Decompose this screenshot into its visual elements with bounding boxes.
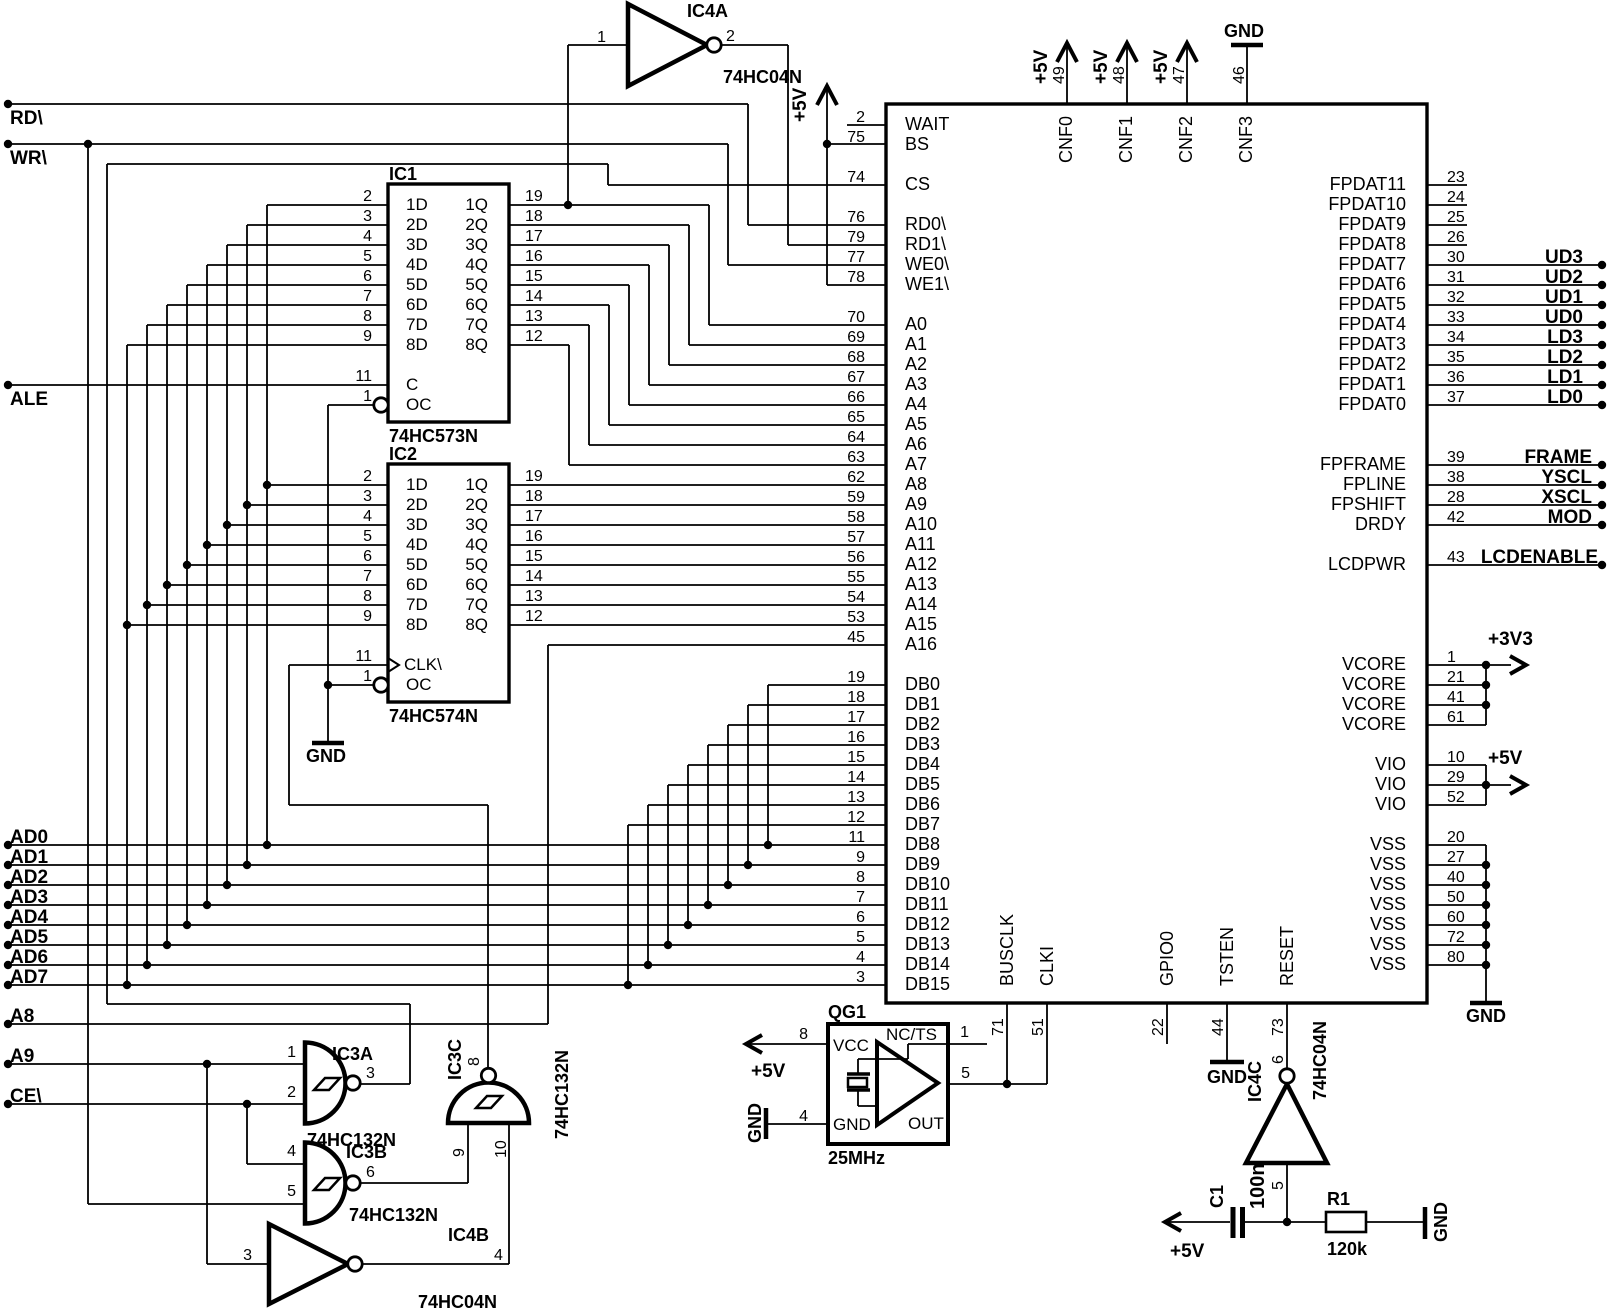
svg-text:16: 16 — [525, 248, 543, 265]
svg-text:A11: A11 — [905, 534, 936, 554]
svg-text:42: 42 — [1447, 509, 1465, 526]
svg-text:UD3: UD3 — [1545, 247, 1583, 268]
svg-text:1: 1 — [287, 1044, 296, 1061]
svg-text:13: 13 — [525, 308, 543, 325]
power +5V arrow on QG1 VCC pin 8 — [746, 1026, 828, 1082]
svg-text:A8: A8 — [905, 474, 927, 494]
net A8 wire — [4, 645, 886, 1028]
net RESET wire from chip to IC4C output — [1286, 1003, 1288, 1069]
net RD\ wire — [4, 100, 886, 225]
net UD1 wire — [1427, 287, 1606, 309]
svg-text:7Q: 7Q — [465, 315, 488, 334]
svg-text:74HC132N: 74HC132N — [349, 1205, 438, 1225]
svg-text:2: 2 — [856, 109, 865, 126]
svg-text:DB2: DB2 — [905, 714, 940, 734]
svg-text:VSS: VSS — [1370, 914, 1406, 934]
svg-text:5: 5 — [1270, 1181, 1287, 1190]
svg-text:DB13: DB13 — [905, 934, 950, 954]
svg-text:VIO: VIO — [1375, 754, 1406, 774]
ground GND at reset RC — [1425, 1202, 1451, 1242]
svg-text:30: 30 — [1447, 249, 1465, 266]
svg-text:GND: GND — [1207, 1067, 1247, 1087]
svg-text:72: 72 — [1447, 929, 1465, 946]
svg-text:5: 5 — [287, 1183, 296, 1200]
svg-text:73: 73 — [1270, 1018, 1287, 1036]
svg-text:32: 32 — [1447, 289, 1465, 306]
svg-text:11: 11 — [848, 829, 865, 846]
svg-text:67: 67 — [847, 369, 865, 386]
net UD3 wire — [1427, 247, 1606, 269]
svg-text:7: 7 — [363, 568, 372, 585]
svg-text:120k: 120k — [1327, 1239, 1368, 1259]
svg-text:74HC04N: 74HC04N — [1310, 1021, 1330, 1100]
power +3V3 on VCORE pins — [1427, 629, 1533, 725]
svg-text:7D: 7D — [406, 315, 428, 334]
svg-text:8: 8 — [799, 1026, 808, 1043]
IC1 74HC573N latch body — [388, 164, 509, 446]
svg-text:8: 8 — [363, 308, 372, 325]
svg-text:DB14: DB14 — [905, 954, 950, 974]
svg-text:27: 27 — [1447, 849, 1465, 866]
svg-text:74HC04N: 74HC04N — [723, 67, 802, 87]
svg-text:5D: 5D — [406, 555, 428, 574]
svg-text:A12: A12 — [905, 554, 937, 574]
svg-text:C: C — [406, 375, 418, 394]
svg-text:60: 60 — [1447, 909, 1465, 926]
svg-text:24: 24 — [1447, 189, 1465, 206]
svg-text:LCDPWR: LCDPWR — [1328, 554, 1406, 574]
svg-text:A10: A10 — [905, 514, 937, 534]
svg-text:3D: 3D — [406, 515, 428, 534]
net latched A9 wire (IC2 2Q to chip A9) — [509, 504, 886, 506]
svg-text:LD1: LD1 — [1547, 367, 1583, 388]
svg-text:15: 15 — [525, 548, 543, 565]
svg-text:6: 6 — [366, 1164, 375, 1181]
svg-text:38: 38 — [1447, 469, 1465, 486]
svg-text:FPDAT8: FPDAT8 — [1338, 234, 1406, 254]
svg-text:DB0: DB0 — [905, 674, 940, 694]
inverter IC4A output bubble — [707, 38, 721, 52]
svg-text:26: 26 — [1447, 229, 1465, 246]
svg-text:46: 46 — [1231, 66, 1248, 84]
net CS wire from IC3A output to chip — [107, 164, 886, 1084]
svg-text:15: 15 — [525, 268, 543, 285]
svg-text:BS: BS — [905, 134, 929, 154]
svg-text:DB7: DB7 — [905, 814, 940, 834]
net IC4A input wire — [568, 44, 628, 46]
svg-text:8D: 8D — [406, 615, 428, 634]
svg-text:49: 49 — [1051, 66, 1068, 84]
svg-text:71: 71 — [990, 1018, 1007, 1036]
nand gate IC3B output bubble — [346, 1176, 360, 1190]
svg-text:69: 69 — [847, 329, 865, 346]
net LD2 wire — [1427, 347, 1606, 369]
svg-text:GND: GND — [745, 1103, 765, 1143]
svg-text:48: 48 — [1111, 66, 1128, 84]
nand gate IC3B schmitt symbol — [314, 1178, 340, 1190]
net latched A6 wire (IC1 7Q to chip A6) — [509, 325, 886, 445]
svg-text:64: 64 — [847, 429, 865, 446]
svg-text:11: 11 — [355, 368, 372, 385]
svg-text:12: 12 — [525, 608, 543, 625]
svg-text:A0: A0 — [905, 314, 927, 334]
ground GND on CNF3 — [1224, 21, 1264, 104]
svg-text:21: 21 — [1447, 669, 1465, 686]
svg-text:A1: A1 — [905, 334, 927, 354]
net latched A15 wire (IC2 8Q to chip A15) — [509, 624, 886, 626]
svg-text:AD0: AD0 — [10, 827, 48, 848]
svg-text:GND: GND — [833, 1115, 871, 1134]
svg-text:78: 78 — [847, 269, 865, 286]
svg-text:9: 9 — [363, 328, 372, 345]
svg-text:VSS: VSS — [1370, 834, 1406, 854]
nand gate IC3C output bubble — [481, 1068, 495, 1082]
svg-text:53: 53 — [847, 609, 865, 626]
svg-text:GND: GND — [1466, 1006, 1506, 1026]
svg-text:CLKI: CLKI — [1037, 946, 1057, 986]
svg-text:39: 39 — [1447, 449, 1465, 466]
svg-text:5Q: 5Q — [465, 275, 488, 294]
svg-text:63: 63 — [847, 449, 865, 466]
svg-text:23: 23 — [1447, 169, 1465, 186]
svg-text:VCORE: VCORE — [1342, 674, 1406, 694]
svg-text:25MHz: 25MHz — [828, 1148, 885, 1168]
svg-text:31: 31 — [1447, 269, 1465, 286]
svg-text:74HC132N: 74HC132N — [552, 1050, 572, 1139]
svg-text:AD2: AD2 — [10, 867, 48, 888]
svg-text:8: 8 — [856, 869, 865, 886]
svg-text:IC3C: IC3C — [445, 1039, 465, 1080]
svg-text:22: 22 — [1150, 1018, 1167, 1036]
svg-text:+3V3: +3V3 — [1488, 629, 1533, 650]
inverter IC4C labels — [1245, 1021, 1330, 1190]
svg-text:DB11: DB11 — [905, 894, 949, 914]
svg-text:47: 47 — [1171, 66, 1188, 84]
nand gate IC3A body — [305, 1043, 346, 1124]
svg-text:DB4: DB4 — [905, 754, 940, 774]
svg-text:FPDAT10: FPDAT10 — [1328, 194, 1406, 214]
svg-text:VIO: VIO — [1375, 774, 1406, 794]
chip WAIT pin stub — [847, 124, 886, 126]
svg-text:2: 2 — [287, 1084, 296, 1101]
svg-text:FPDAT5: FPDAT5 — [1338, 294, 1406, 314]
net latched A13 wire (IC2 6Q to chip A13) — [509, 584, 886, 586]
net latched A0 wire (IC1 1Q to chip A0) — [509, 45, 886, 325]
net LD1 wire — [1427, 367, 1606, 389]
svg-text:74HC574N: 74HC574N — [389, 706, 478, 726]
svg-text:9: 9 — [363, 608, 372, 625]
svg-text:9: 9 — [856, 849, 865, 866]
svg-text:3Q: 3Q — [465, 515, 488, 534]
svg-text:QG1: QG1 — [828, 1002, 866, 1022]
svg-text:A16: A16 — [905, 634, 937, 654]
svg-text:LD2: LD2 — [1547, 347, 1583, 368]
svg-text:DB10: DB10 — [905, 874, 950, 894]
net FRAME wire — [1427, 447, 1606, 469]
svg-text:19: 19 — [525, 468, 543, 485]
svg-text:54: 54 — [847, 589, 865, 606]
svg-text:3: 3 — [856, 969, 865, 986]
svg-text:A8: A8 — [10, 1006, 34, 1027]
svg-text:FPSHIFT: FPSHIFT — [1331, 494, 1406, 514]
svg-text:CNF0: CNF0 — [1056, 116, 1076, 163]
nand gate IC3B labels — [287, 1142, 438, 1225]
svg-text:3D: 3D — [406, 235, 428, 254]
svg-text:35: 35 — [1447, 349, 1465, 366]
svg-text:+5V: +5V — [751, 1061, 786, 1082]
svg-text:WE0\: WE0\ — [905, 254, 949, 274]
nand gate IC3A labels — [287, 1044, 396, 1150]
ground GND on VSS pins — [1427, 845, 1506, 1026]
net IC4B output to IC3C pin 10 wire — [362, 1123, 509, 1264]
svg-text:2D: 2D — [406, 215, 428, 234]
svg-text:IC3A: IC3A — [332, 1044, 373, 1064]
svg-text:74: 74 — [847, 169, 865, 186]
svg-text:45: 45 — [847, 629, 865, 646]
svg-text:7: 7 — [363, 288, 372, 305]
svg-text:2: 2 — [726, 28, 735, 45]
svg-text:CS: CS — [905, 174, 930, 194]
svg-text:4D: 4D — [406, 255, 428, 274]
svg-text:6D: 6D — [406, 295, 428, 314]
svg-text:IC3B: IC3B — [346, 1142, 387, 1162]
net WR\ wire — [4, 140, 886, 1204]
net IC2 clock wire from IC3C output — [289, 665, 488, 1069]
net latched A3 wire (IC1 4Q to chip A3) — [509, 265, 886, 385]
svg-text:55: 55 — [847, 569, 865, 586]
net AD0 wire — [4, 205, 886, 849]
svg-text:DB5: DB5 — [905, 774, 940, 794]
svg-text:68: 68 — [847, 349, 865, 366]
svg-text:10: 10 — [493, 1140, 510, 1158]
svg-text:A14: A14 — [905, 594, 937, 614]
inverter IC4B labels — [243, 1225, 503, 1309]
svg-text:44: 44 — [1210, 1018, 1227, 1036]
net AD6 wire — [4, 325, 886, 969]
inverter IC4B triangle — [269, 1224, 348, 1304]
svg-text:+5V: +5V — [1091, 49, 1112, 84]
oscillator QG1 amplifier triangle — [877, 1042, 938, 1125]
inverter IC4B output bubble — [348, 1257, 362, 1271]
svg-text:A4: A4 — [905, 394, 927, 414]
svg-text:VCORE: VCORE — [1342, 654, 1406, 674]
chip GPIO0 pin stub — [1166, 1003, 1168, 1044]
inverter IC4A triangle — [628, 4, 707, 86]
svg-text:6Q: 6Q — [465, 575, 488, 594]
svg-text:34: 34 — [1447, 329, 1465, 346]
svg-text:37: 37 — [1447, 389, 1465, 406]
svg-text:5Q: 5Q — [465, 555, 488, 574]
svg-text:OC: OC — [406, 395, 432, 414]
svg-text:OUT: OUT — [908, 1114, 944, 1133]
net latched A1 wire (IC1 2Q to chip A1) — [509, 225, 886, 345]
svg-text:80: 80 — [1447, 949, 1465, 966]
net latched A2 wire (IC1 3Q to chip A2) — [509, 245, 886, 365]
svg-text:A9: A9 — [905, 494, 927, 514]
svg-text:4: 4 — [363, 228, 372, 245]
svg-text:6: 6 — [1270, 1055, 1287, 1064]
power +5V arrow on reset RC — [1165, 1213, 1230, 1262]
IC2 pin labels and numbers — [355, 468, 543, 694]
svg-text:AD4: AD4 — [10, 907, 48, 928]
svg-text:3: 3 — [366, 1065, 375, 1082]
ground symbol below IC2 — [306, 743, 346, 766]
svg-text:43: 43 — [1447, 549, 1465, 566]
oscillator QG1 crystal symbol — [847, 1044, 908, 1106]
svg-text:20: 20 — [1447, 829, 1465, 846]
svg-text:VCC: VCC — [833, 1036, 869, 1055]
svg-text:A6: A6 — [905, 434, 927, 454]
svg-text:CLK\: CLK\ — [404, 655, 442, 674]
svg-text:5: 5 — [961, 1065, 970, 1082]
svg-text:+5V: +5V — [1151, 49, 1172, 84]
net XSCL wire — [1427, 487, 1606, 509]
svg-text:5: 5 — [363, 248, 372, 265]
svg-text:LD3: LD3 — [1547, 327, 1583, 348]
svg-text:IC2: IC2 — [389, 444, 417, 464]
svg-text:VIO: VIO — [1375, 794, 1406, 814]
power +5V arrow feeding BS and WE1\ — [790, 86, 886, 285]
net latched A12 wire (IC2 5Q to chip A12) — [509, 564, 886, 566]
svg-text:VSS: VSS — [1370, 874, 1406, 894]
svg-text:70: 70 — [847, 309, 865, 326]
svg-text:A9: A9 — [10, 1046, 34, 1067]
svg-text:ALE: ALE — [10, 389, 48, 410]
svg-text:58: 58 — [847, 509, 865, 526]
nand gate IC3C labels — [445, 1039, 572, 1158]
IC1 pin labels and numbers — [355, 188, 543, 414]
svg-text:8D: 8D — [406, 335, 428, 354]
svg-text:62: 62 — [847, 469, 865, 486]
svg-text:IC4A: IC4A — [687, 1, 728, 21]
svg-text:28: 28 — [1447, 489, 1465, 506]
svg-text:7: 7 — [856, 889, 865, 906]
net output-enable to GND wire (IC1 OC, IC2 OC) — [324, 405, 374, 741]
svg-text:1: 1 — [960, 1024, 969, 1041]
svg-text:NC/TS: NC/TS — [886, 1025, 937, 1044]
IC S1D13700 right pin labels and numbers — [1320, 169, 1465, 974]
svg-text:WAIT: WAIT — [905, 114, 949, 134]
inverter IC4C triangle — [1246, 1084, 1327, 1163]
svg-text:1Q: 1Q — [465, 195, 488, 214]
svg-text:VCORE: VCORE — [1342, 714, 1406, 734]
svg-text:RD\: RD\ — [10, 108, 43, 129]
net IC4A output wire to chip RD1\ — [721, 45, 886, 245]
svg-text:3: 3 — [243, 1247, 252, 1264]
net CE\ wire — [4, 1086, 305, 1164]
svg-text:FPDAT6: FPDAT6 — [1338, 274, 1406, 294]
svg-text:66: 66 — [847, 389, 865, 406]
net UD0 wire — [1427, 307, 1606, 329]
svg-text:1D: 1D — [406, 195, 428, 214]
net AD7 wire — [4, 345, 886, 989]
svg-text:RD1\: RD1\ — [905, 234, 946, 254]
svg-text:6D: 6D — [406, 575, 428, 594]
svg-text:74HC573N: 74HC573N — [389, 426, 478, 446]
net oscillator output wire to BUSCLK and CLKI — [948, 1003, 1047, 1088]
svg-text:2D: 2D — [406, 495, 428, 514]
svg-text:74HC04N: 74HC04N — [418, 1292, 497, 1309]
svg-text:FPDAT7: FPDAT7 — [1338, 254, 1406, 274]
net latched A10 wire (IC2 3Q to chip A10) — [509, 524, 886, 526]
svg-text:14: 14 — [847, 769, 865, 786]
svg-text:GND: GND — [1431, 1202, 1451, 1242]
power +5V on VIO pins — [1427, 748, 1526, 805]
svg-text:56: 56 — [847, 549, 865, 566]
net AD4 wire — [4, 285, 886, 929]
net latched A14 wire (IC2 7Q to chip A14) — [509, 604, 886, 606]
svg-text:65: 65 — [847, 409, 865, 426]
svg-text:+5V: +5V — [1031, 49, 1052, 84]
svg-text:1: 1 — [597, 29, 606, 46]
svg-text:50: 50 — [1447, 889, 1465, 906]
oscillator QG1 body — [828, 1002, 948, 1168]
svg-text:6: 6 — [363, 268, 372, 285]
svg-text:FPDAT9: FPDAT9 — [1338, 214, 1406, 234]
net latched A11 wire (IC2 4Q to chip A11) — [509, 544, 886, 546]
svg-text:1Q: 1Q — [465, 475, 488, 494]
svg-text:+5V: +5V — [790, 87, 811, 122]
resistor R1 — [1326, 1189, 1424, 1259]
svg-text:5: 5 — [856, 929, 865, 946]
svg-text:12: 12 — [525, 328, 543, 345]
svg-text:79: 79 — [847, 229, 865, 246]
svg-text:13: 13 — [847, 789, 865, 806]
svg-text:LCDENABLE: LCDENABLE — [1481, 547, 1598, 568]
svg-text:A2: A2 — [905, 354, 927, 374]
net AD2 wire — [4, 245, 886, 889]
svg-text:IC1: IC1 — [389, 164, 417, 184]
svg-text:17: 17 — [847, 709, 865, 726]
net latched A4 wire (IC1 5Q to chip A4) — [509, 285, 886, 405]
svg-text:1D: 1D — [406, 475, 428, 494]
svg-text:LD0: LD0 — [1547, 387, 1583, 408]
svg-text:17: 17 — [525, 508, 543, 525]
IC S1D13700 LCD controller body — [886, 104, 1427, 1003]
svg-text:8Q: 8Q — [465, 335, 488, 354]
svg-text:100n: 100n — [1247, 1163, 1269, 1209]
svg-text:3Q: 3Q — [465, 235, 488, 254]
svg-text:18: 18 — [525, 208, 543, 225]
svg-text:FPFRAME: FPFRAME — [1320, 454, 1406, 474]
net AD3 wire — [4, 265, 886, 909]
ground GND on TSTEN pin 44 — [1207, 1003, 1247, 1087]
svg-text:VSS: VSS — [1370, 954, 1406, 974]
svg-text:IC4B: IC4B — [448, 1225, 489, 1245]
nand gate IC3B body — [305, 1143, 346, 1224]
net IC4C input wire to RC junction — [1283, 1163, 1291, 1226]
IC2 OC inverting bubble — [374, 678, 388, 692]
svg-text:DB9: DB9 — [905, 854, 940, 874]
svg-text:FPDAT2: FPDAT2 — [1338, 354, 1406, 374]
svg-text:3: 3 — [363, 488, 372, 505]
svg-text:61: 61 — [1447, 709, 1465, 726]
svg-text:41: 41 — [1447, 689, 1465, 706]
inverter IC4A labels — [597, 1, 802, 87]
chip FPDAT11-FPDAT8 pin stubs — [1427, 185, 1467, 245]
svg-text:76: 76 — [847, 209, 865, 226]
svg-text:AD3: AD3 — [10, 887, 48, 908]
net A9 wire — [4, 1046, 305, 1264]
svg-text:UD1: UD1 — [1545, 287, 1583, 308]
svg-text:FPDAT3: FPDAT3 — [1338, 334, 1406, 354]
svg-text:7D: 7D — [406, 595, 428, 614]
svg-text:GND: GND — [1224, 21, 1264, 41]
nand gate IC3C body — [448, 1083, 529, 1124]
svg-text:1: 1 — [1447, 649, 1456, 666]
svg-text:16: 16 — [525, 528, 543, 545]
ground GND on QG1 pin 4 — [745, 1103, 828, 1143]
